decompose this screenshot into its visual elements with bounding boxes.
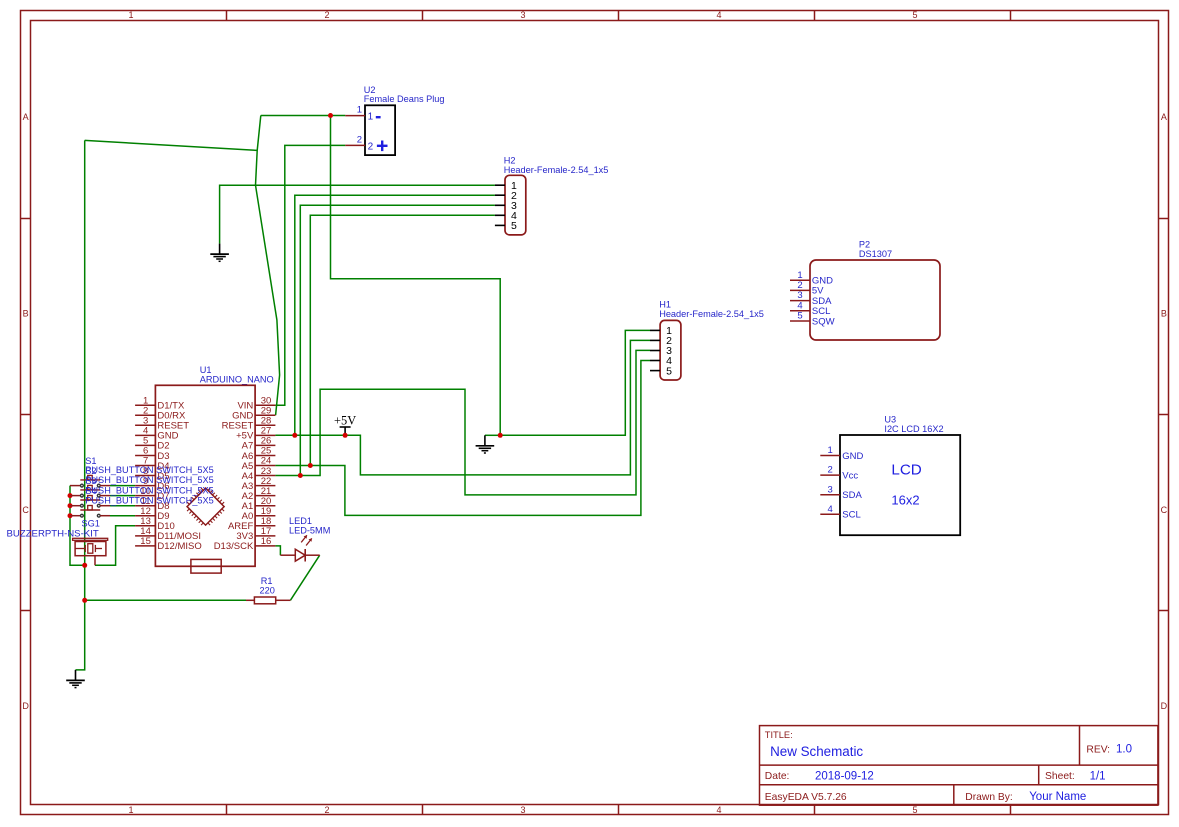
junction SDA A4 (298, 473, 303, 478)
H1 pin 1 (650, 325, 672, 337)
svg-text:5: 5 (666, 365, 672, 377)
U1 pin 22 A3 (242, 476, 276, 492)
connector U2 Female Deans Plug (364, 85, 445, 155)
svg-text:EasyEDA V5.7.26: EasyEDA V5.7.26 (765, 792, 847, 803)
IC P2 DS1307 (810, 240, 940, 340)
H1 pin 3 (650, 345, 672, 357)
svg-text:New Schematic: New Schematic (770, 744, 863, 759)
svg-text:PUSH_BUTTON SWITCH_5X5: PUSH_BUTTON SWITCH_5X5 (85, 485, 213, 495)
U3 pin 4 SCL (820, 504, 860, 521)
svg-text:PUSH_BUTTON SWITCH_5X5: PUSH_BUTTON SWITCH_5X5 (85, 475, 213, 485)
U1 pin 18 AREF (228, 516, 275, 532)
svg-text:SG1: SG1 (82, 519, 100, 529)
ground symbol upper (H2 pin1 net) (210, 244, 229, 262)
svg-text:D: D (22, 701, 29, 711)
U1 pin 25 A6 (242, 446, 276, 462)
svg-text:5: 5 (912, 805, 917, 815)
svg-text:LED-5MM: LED-5MM (289, 525, 330, 535)
ground symbol bottom left (66, 670, 85, 688)
svg-text:C: C (22, 505, 29, 515)
svg-text:4: 4 (716, 10, 721, 20)
U1 pin 28 RESET (222, 416, 276, 432)
wire LED cathode to R1 diagonal (290, 555, 319, 600)
U1 pin 29 GND (232, 405, 275, 421)
junction +5V at H2 drop (292, 433, 297, 438)
+5V power flag (334, 413, 356, 435)
U1 pin 20 A1 (242, 496, 276, 512)
svg-text:TITLE:: TITLE: (765, 730, 793, 740)
U1 pin 24 A5 (242, 456, 276, 472)
ground symbol middle (near H1) (476, 435, 495, 453)
wire SDA H2 pin3 drop (300, 205, 495, 475)
U1 pin 1 D1/TX (135, 395, 185, 411)
wire GND long left vertical (84, 140, 86, 565)
svg-text:1: 1 (357, 105, 362, 116)
H2 pin 2 (495, 190, 517, 202)
svg-text:GND: GND (842, 451, 863, 462)
U1 pin 8 D5 (135, 466, 169, 482)
wire button S3 to U1 pin11 (110, 505, 135, 507)
svg-text:SCL: SCL (842, 510, 860, 521)
module U3 I2C LCD 16X2 (840, 415, 960, 536)
svg-text:1.0: 1.0 (1116, 744, 1132, 756)
junction SCL A5 (308, 463, 313, 468)
U1 pin 27 +5V (236, 426, 275, 442)
H1 pin 4 (650, 355, 672, 367)
svg-text:2: 2 (357, 134, 362, 145)
svg-text:1/1: 1/1 (1090, 771, 1106, 783)
svg-text:3: 3 (520, 805, 525, 815)
label S2 (85, 466, 213, 485)
U1 pin 4 GND (135, 426, 179, 442)
U1 pin 9 D6 (135, 476, 169, 492)
svg-text:I2C LCD 16X2: I2C LCD 16X2 (884, 424, 943, 434)
H1 pin 5 (650, 365, 672, 377)
wire GND from U2 pin1 down right to mid ground (331, 116, 501, 436)
wire SDA U1 pin23 to H1 pin3 (275, 350, 650, 495)
junction buttons rail S3 (68, 503, 73, 508)
P2 pin 4 SCL (790, 300, 830, 317)
wire GND wavy down to U1 pin29 GND (256, 116, 280, 416)
U1 pin 11 D8 (135, 496, 169, 512)
svg-text:SQW: SQW (812, 316, 835, 327)
buzzer SG1 BUZZERPTH-NS-KIT (7, 519, 108, 566)
U1 pin 3 RESET (135, 416, 189, 432)
push button S2 SWITCH_5X5 (70, 485, 110, 497)
wire +5V U2 pin2 to U1 VIN (275, 145, 345, 405)
U1 pin 30 VIN (237, 395, 275, 411)
junction GND buzzer (82, 563, 87, 568)
wire buzzer to U1 pin13 D10 (95, 526, 135, 566)
U1 pin 10 D7 (135, 486, 169, 502)
junction U2 pin1 GND (328, 113, 333, 118)
U2 pin 2 (+) (345, 134, 387, 152)
MCU U1 ARDUINO_NANO (155, 365, 273, 566)
U1 pin 7 D4 (135, 456, 169, 472)
svg-text:B: B (1161, 309, 1167, 319)
U1 pin 16 D13/SCK (214, 536, 276, 552)
svg-text:16: 16 (261, 536, 272, 547)
connector H2 Header-Female-2.54_1x5 (504, 156, 609, 235)
svg-text:C: C (1161, 505, 1168, 515)
junction buttons rail S4 (68, 513, 73, 518)
label S1 (85, 456, 213, 475)
wire GND branch left slant (85, 140, 258, 150)
resistor R1 220 (246, 576, 290, 604)
svg-text:SDA: SDA (842, 490, 862, 501)
svg-text:5: 5 (511, 220, 517, 232)
junction GND R1 (82, 598, 87, 603)
U1 pin 14 D11/MOSI (135, 526, 201, 542)
push button S3 SWITCH_5X5 (70, 496, 110, 508)
H2 pin 1 (495, 180, 517, 192)
U1 pin 12 D9 (135, 506, 169, 522)
svg-text:15: 15 (140, 536, 151, 547)
label S4 (85, 486, 213, 505)
U3 pin 3 SDA (820, 484, 862, 501)
svg-text:DS1307: DS1307 (859, 249, 892, 259)
svg-text:D12/MISO: D12/MISO (157, 541, 201, 552)
wire button S4 to U1 pin12 (110, 515, 135, 517)
wire SCL U1 pin24 to H1 pin4 (275, 361, 650, 516)
P2 pin 1 GND (790, 270, 833, 287)
wire button S1 to U1 pin9 (110, 485, 135, 487)
U1 QFP chip drawing (183, 484, 229, 530)
svg-text:BUZZERPTH-NS-KIT: BUZZERPTH-NS-KIT (7, 528, 99, 539)
label S3 (85, 476, 213, 495)
svg-text:1: 1 (128, 805, 133, 815)
svg-text:3: 3 (828, 484, 833, 495)
title block (760, 726, 1158, 806)
wire GND to H1 pin1 (500, 330, 650, 435)
wire GND to R1 left (85, 599, 246, 601)
svg-text:16x2: 16x2 (891, 492, 919, 507)
P2 pin 3 SDA (790, 290, 832, 307)
U1 pin 6 D3 (135, 446, 169, 462)
svg-text:Vcc: Vcc (842, 470, 858, 481)
junction buttons rail S2 (68, 493, 73, 498)
svg-text:Sheet:: Sheet: (1045, 771, 1075, 782)
svg-text:PUSH_BUTTON SWITCH_5X5: PUSH_BUTTON SWITCH_5X5 (85, 495, 213, 505)
wire GND from U2 pin1 to elbow (261, 115, 346, 117)
U1 pin 2 D0/RX (135, 405, 186, 421)
svg-text:Date:: Date: (765, 771, 790, 782)
wire GND down to bottom ground (76, 565, 85, 670)
svg-text:2: 2 (324, 805, 329, 815)
H1 pin 2 (650, 335, 672, 347)
U1 pin 13 D10 (135, 516, 175, 532)
U3 pin 1 GND (820, 445, 863, 462)
svg-text:D: D (1161, 701, 1168, 711)
U1 pin 17 3V3 (236, 526, 275, 542)
U3 pin 2 Vcc (820, 465, 858, 482)
svg-text:PUSH_BUTTON SWITCH_5X5: PUSH_BUTTON SWITCH_5X5 (85, 465, 213, 475)
svg-text:1: 1 (128, 10, 133, 20)
svg-text:5: 5 (797, 311, 802, 322)
svg-text:1: 1 (368, 112, 374, 123)
svg-text:Drawn By:: Drawn By: (965, 792, 1013, 803)
svg-text:2: 2 (324, 10, 329, 20)
svg-text:2: 2 (368, 141, 374, 152)
svg-text:REV:: REV: (1086, 744, 1110, 755)
wire SCL H2 pin4 drop (310, 215, 495, 465)
svg-text:Female Deans Plug: Female Deans Plug (364, 94, 445, 104)
junction GND mid (498, 433, 503, 438)
U1 USB connector drawing (191, 559, 221, 573)
U2 pin 1 (-) (345, 105, 380, 123)
svg-text:ARDUINO_NANO: ARDUINO_NANO (200, 374, 274, 384)
svg-text:4: 4 (828, 504, 833, 515)
push button S1 SWITCH_5X5 (70, 475, 110, 487)
wire D13 U1 pin16 to LED anode (275, 546, 280, 555)
wire +5V U1 pin27 to H1 pin2 (275, 340, 650, 475)
svg-text:+5V: +5V (334, 413, 356, 427)
wire GND buttons common rail (70, 486, 85, 566)
svg-text:3: 3 (520, 10, 525, 20)
P2 pin 5 SQW (790, 311, 835, 328)
svg-text:Header-Female-2.54_1x5: Header-Female-2.54_1x5 (659, 309, 764, 319)
svg-text:B: B (23, 309, 29, 319)
connector H1 Header-Female-2.54_1x5 (659, 300, 764, 380)
U1 pin 26 A7 (242, 436, 276, 452)
U1 pin 15 D12/MISO (135, 536, 202, 552)
svg-text:2: 2 (828, 465, 833, 476)
push button S4 SWITCH_5X5 (70, 506, 110, 518)
U1 pin 23 A4 (242, 466, 276, 482)
svg-text:Header-Female-2.54_1x5: Header-Female-2.54_1x5 (504, 165, 609, 175)
svg-text:A: A (1161, 112, 1167, 122)
svg-text:2018-09-12: 2018-09-12 (815, 771, 874, 783)
H2 pin 4 (495, 210, 517, 222)
H2 pin 3 (495, 200, 517, 212)
wire button S2 to U1 pin10 (110, 495, 135, 497)
svg-text:5: 5 (912, 10, 917, 20)
H2 pin 5 (495, 220, 517, 232)
U1 pin 19 A0 (242, 506, 276, 522)
junction +5V at flag (343, 433, 348, 438)
svg-text:LCD: LCD (891, 461, 921, 478)
wire GND H2 pin1 to upper ground (220, 185, 495, 243)
svg-text:220: 220 (260, 585, 275, 595)
U1 pin 5 D2 (135, 436, 169, 452)
svg-text:D13/SCK: D13/SCK (214, 541, 254, 552)
svg-text:1: 1 (828, 445, 833, 456)
svg-text:A: A (23, 112, 29, 122)
svg-text:4: 4 (716, 805, 721, 815)
svg-text:Your Name: Your Name (1029, 791, 1086, 803)
wire +5V H2 pin2 drop (295, 195, 495, 435)
P2 pin 2 5V (790, 280, 824, 297)
wire GND stub to mid ground symbol (485, 434, 500, 436)
U1 pin 21 A2 (242, 486, 276, 502)
LED LED1 LED-5MM (280, 516, 330, 562)
